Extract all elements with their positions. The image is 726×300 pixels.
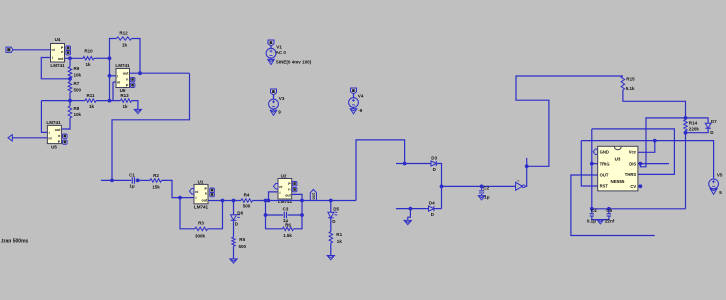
- svg-text:U6: U6: [120, 88, 126, 93]
- svg-text:n: n: [61, 50, 63, 54]
- svg-text:220k: 220k: [689, 127, 700, 132]
- svg-text:D5: D5: [333, 207, 339, 212]
- svg-text:15k: 15k: [152, 184, 160, 189]
- svg-text:R3: R3: [198, 220, 204, 225]
- svg-text:THRS: THRS: [625, 172, 637, 177]
- svg-text:R11: R11: [86, 93, 95, 98]
- svg-text:D6: D6: [237, 211, 243, 216]
- svg-text:D3: D3: [431, 156, 437, 161]
- svg-text:1k: 1k: [122, 104, 128, 109]
- svg-text:V1: V1: [276, 45, 282, 50]
- svg-text:i: i: [52, 56, 53, 60]
- svg-text:ni: ni: [195, 190, 198, 194]
- svg-text:C3: C3: [283, 206, 289, 211]
- svg-text:C5: C5: [606, 208, 612, 213]
- svg-text:D7: D7: [711, 119, 717, 124]
- svg-text:DIS: DIS: [629, 161, 636, 166]
- svg-text:AC 0: AC 0: [276, 50, 287, 55]
- svg-text:R8: R8: [74, 106, 80, 111]
- svg-text:LM741: LM741: [194, 205, 209, 210]
- svg-text:U3: U3: [615, 156, 621, 161]
- svg-text:ni: ni: [48, 137, 51, 141]
- svg-text:-9: -9: [358, 108, 363, 113]
- svg-text:out: out: [58, 57, 64, 61]
- svg-text:.tran 500ms: .tran 500ms: [1, 238, 29, 244]
- svg-text:U5: U5: [51, 145, 57, 150]
- svg-text:5.1k: 5.1k: [626, 86, 635, 91]
- svg-text:n: n: [58, 134, 60, 138]
- svg-text:R1: R1: [336, 232, 342, 237]
- svg-text:LM741: LM741: [50, 63, 65, 68]
- svg-text:U1: U1: [198, 179, 204, 184]
- svg-text:10k: 10k: [74, 72, 82, 77]
- svg-text:ni: ni: [52, 48, 55, 52]
- svg-text:out: out: [311, 192, 316, 199]
- svg-text:R15: R15: [626, 77, 635, 82]
- svg-text:i: i: [280, 191, 281, 195]
- svg-text:i: i: [196, 196, 197, 200]
- svg-text:1k: 1k: [89, 104, 95, 109]
- svg-text:R10: R10: [84, 49, 93, 54]
- svg-text:R4: R4: [244, 192, 250, 197]
- svg-text:1.5k: 1.5k: [283, 233, 292, 238]
- svg-text:500: 500: [243, 203, 251, 208]
- svg-text:500: 500: [239, 244, 247, 249]
- svg-text:500: 500: [74, 87, 82, 92]
- svg-text:R7: R7: [74, 81, 80, 86]
- svg-text:D4: D4: [429, 201, 435, 206]
- svg-text:U2: U2: [281, 173, 287, 178]
- svg-text:10k: 10k: [74, 112, 82, 117]
- svg-text:n: n: [288, 188, 290, 192]
- svg-text:LM741: LM741: [278, 199, 293, 204]
- svg-text:SINE(0 4mv 100): SINE(0 4mv 100): [276, 59, 312, 64]
- svg-text:out: out: [55, 128, 61, 132]
- svg-text:out: out: [123, 72, 129, 76]
- svg-text:Vcc: Vcc: [629, 150, 637, 155]
- svg-text:out: out: [202, 199, 208, 203]
- svg-text:R13: R13: [120, 93, 129, 98]
- svg-text:OUT: OUT: [600, 173, 609, 178]
- svg-text:LM741: LM741: [115, 63, 130, 68]
- svg-text:R12: R12: [119, 31, 128, 36]
- svg-text:GND: GND: [600, 150, 609, 155]
- svg-text:NE555: NE555: [611, 179, 625, 184]
- svg-text:i: i: [49, 131, 50, 135]
- svg-text:ni: ni: [279, 185, 282, 189]
- svg-text:1µ: 1µ: [484, 195, 490, 200]
- svg-text:1k: 1k: [122, 43, 128, 48]
- svg-text:RST: RST: [600, 184, 609, 189]
- svg-text:n: n: [126, 78, 128, 82]
- svg-text:C2: C2: [483, 186, 489, 191]
- svg-text:TRIG: TRIG: [600, 161, 610, 166]
- svg-text:22nf: 22nf: [605, 218, 615, 223]
- svg-text:out: out: [285, 194, 291, 198]
- svg-text:R14: R14: [689, 121, 698, 126]
- svg-text:LM741: LM741: [46, 120, 61, 125]
- svg-text:ni: ni: [117, 80, 120, 84]
- svg-text:R6: R6: [285, 223, 291, 228]
- svg-text:1µ: 1µ: [129, 184, 135, 189]
- svg-text:C1: C1: [129, 172, 135, 177]
- svg-text:R2: R2: [153, 173, 159, 178]
- svg-text:n: n: [205, 191, 207, 195]
- svg-text:0.1µ: 0.1µ: [587, 218, 596, 223]
- svg-text:300k: 300k: [195, 234, 206, 239]
- svg-text:V5: V5: [717, 172, 723, 177]
- svg-text:1k: 1k: [85, 62, 91, 67]
- svg-text:U4: U4: [55, 37, 61, 42]
- svg-text:C4: C4: [591, 208, 597, 213]
- svg-text:R9: R9: [74, 66, 80, 71]
- svg-text:V4: V4: [358, 93, 364, 98]
- svg-text:CV: CV: [630, 184, 636, 189]
- svg-text:V3: V3: [279, 96, 285, 101]
- svg-text:1k: 1k: [337, 239, 343, 244]
- svg-text:i: i: [117, 74, 118, 78]
- svg-text:R5: R5: [239, 237, 245, 242]
